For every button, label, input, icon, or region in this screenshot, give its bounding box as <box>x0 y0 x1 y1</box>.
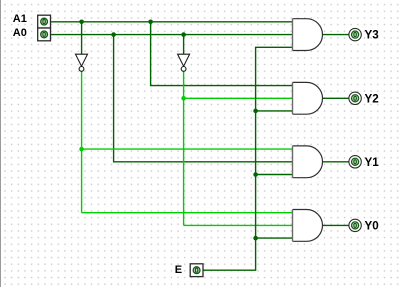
wire gate U4 output to pin Y2 <box>323 97 349 99</box>
junction E at y238.1 <box>253 236 258 241</box>
input pin A1 <box>38 15 51 28</box>
wire gate U5 output to pin Y1 <box>323 161 349 163</box>
junction A1/branch x150 <box>148 20 153 25</box>
junction nA1 at y149 <box>79 147 84 152</box>
svg-text:E: E <box>175 264 182 276</box>
wire inverter U1 output (net nA1, high) vertical <box>81 71 83 212</box>
junction E at y110.9 <box>253 109 258 114</box>
wire gate U3 output to pin Y3 <box>323 34 349 36</box>
wire gate U6 output to pin Y0 <box>323 224 349 226</box>
wire E to gate U5 bottom input <box>256 174 293 176</box>
AND gate U5 (Y1) <box>293 146 323 178</box>
left window border <box>0 0 1 287</box>
junction A1/inverter U1 <box>79 20 84 25</box>
inverter U2 <box>178 54 190 71</box>
AND gate U3 (Y3) <box>293 19 323 51</box>
svg-text:Y3: Y3 <box>365 28 380 41</box>
wire nA0 to gate U4 middle input <box>184 97 293 99</box>
output pin Y3 <box>349 28 361 40</box>
wire A0 horizontal (net A0) <box>51 34 293 36</box>
svg-text:A0: A0 <box>13 27 27 39</box>
wire A1 branch down at x=150.6 <box>151 22 293 86</box>
output pin Y1 <box>349 156 361 168</box>
wire A0 to inverter U2 input <box>183 35 185 55</box>
AND gate U4 (Y2) <box>293 82 323 114</box>
wire A1 horizontal (net A1) <box>51 21 293 23</box>
wire A0 branch down at x=113.6 <box>114 35 293 162</box>
wire nA0 to gate U6 middle input <box>184 224 293 226</box>
wire E to gate U4 bottom input <box>256 110 293 112</box>
wire nA1 to gate U6 top input <box>82 212 293 214</box>
svg-text:Y0: Y0 <box>365 219 379 232</box>
wire A1 to inverter U1 input <box>81 22 83 54</box>
wire E from pin to riser <box>203 47 292 270</box>
svg-text:A1: A1 <box>13 13 27 25</box>
junction A0/branch x113 <box>111 32 116 37</box>
input pin E <box>190 264 203 277</box>
svg-text:Y1: Y1 <box>365 156 380 169</box>
junction nA0 at y98 <box>181 96 186 101</box>
AND gate U6 (Y0) <box>293 210 323 242</box>
output pin Y2 <box>349 92 361 104</box>
wire E to gate U6 bottom input <box>256 237 293 239</box>
input pin A0 <box>38 28 51 41</box>
junction A0/inverter U2 <box>181 32 186 37</box>
inverter U1 <box>76 54 88 71</box>
svg-text:Y2: Y2 <box>365 92 379 105</box>
wire inverter U2 output (net nA0, high) vertical <box>183 71 185 225</box>
output pin Y0 <box>349 219 361 231</box>
junction E at y174.5 <box>253 172 258 177</box>
wire nA1 to gate U5 top input <box>82 148 293 150</box>
